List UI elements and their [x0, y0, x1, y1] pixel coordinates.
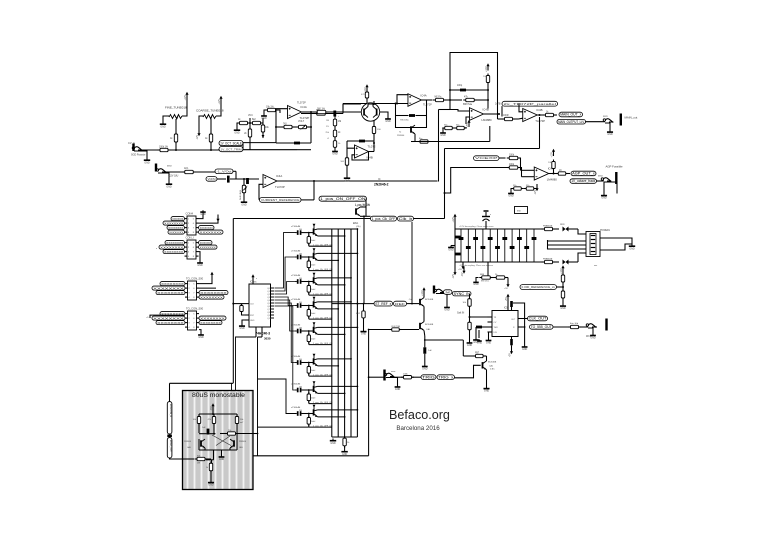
- svg-text:1uF: 1uF: [428, 350, 432, 352]
- svg-text:xxxx: xxxx: [598, 176, 603, 178]
- ground IC4B res: [344, 176, 350, 182]
- resistor mono A: [193, 414, 201, 433]
- wire power top: [578, 229, 586, 234]
- wire mid vertical 438: [439, 110, 451, 182]
- svg-text:xxxx: xxxx: [603, 116, 608, 118]
- wire agp in: [499, 157, 506, 159]
- resistor R coarse wiper: [205, 119, 213, 150]
- resistor wcp out: [568, 322, 588, 329]
- svg-text:CAL: CAL: [426, 328, 431, 331]
- wire IC4A out: [277, 180, 438, 182]
- svg-text:+12V: +12V: [486, 66, 488, 72]
- capacitor bulk top: [455, 236, 461, 239]
- svg-text:GND: GND: [200, 213, 206, 216]
- svg-text:GND: GND: [607, 133, 613, 136]
- svg-text:FERRITE: FERRITE: [543, 226, 553, 228]
- svg-text:GND: GND: [330, 442, 336, 445]
- capacitor 555 top: [508, 301, 525, 345]
- svg-text:XXXXXXXX: XXXXXXXX: [157, 321, 184, 325]
- transistor Q cal lower: [419, 322, 434, 331]
- ground of FINE pot: [160, 122, 166, 128]
- wire power bottom: [578, 253, 586, 262]
- jack CV_IN: [128, 141, 147, 158]
- svg-text:XXXXXXXX: XXXXXXXX: [160, 245, 183, 249]
- svg-text:1V_octave_track: 1V_octave_track: [571, 179, 595, 183]
- wire circle y113 bus: [301, 112, 343, 115]
- wire mono mid: [213, 428, 215, 435]
- wire cal chain: [423, 306, 426, 336]
- svg-text:Clk_b: Clk_b: [399, 217, 413, 221]
- svg-text:GND: GND: [234, 131, 240, 134]
- svg-text:GND: GND: [629, 247, 635, 250]
- -12V supply COARSE pot: [197, 129, 201, 140]
- op-amp IC4A sawcore: [408, 93, 432, 106]
- ground WCP: [590, 334, 596, 340]
- wire box2: [445, 168, 510, 194]
- resistor below IC4B: [340, 156, 348, 176]
- svg-text:1k: 1k: [238, 119, 241, 121]
- vneg sync: [462, 267, 466, 277]
- svg-text:AGP_OUT_x: AGP_OUT_x: [572, 172, 595, 176]
- capacitor C row3: [227, 176, 230, 183]
- svg-text:2k: 2k: [244, 133, 247, 135]
- svg-text:1M: 1M: [338, 121, 341, 123]
- svg-text:-1_V/Oct: -1_V/Oct: [217, 169, 232, 173]
- wire Q trig emitter: [486, 370, 488, 387]
- svg-text:xxx: xxx: [594, 265, 598, 267]
- svg-text:CLW 7SB: CLW 7SB: [391, 326, 401, 328]
- net label OCT pill 2: [219, 147, 243, 152]
- svg-text:GND: GND: [344, 179, 350, 182]
- svg-text:IC4A: IC4A: [301, 105, 307, 109]
- svg-text:TL072P: TL072P: [535, 119, 545, 123]
- ground 555 topright: [522, 345, 528, 351]
- svg-text:IC4B: IC4B: [483, 107, 489, 111]
- svg-text:Salt IN: Salt IN: [457, 312, 464, 315]
- op-amp IC4A: [263, 174, 285, 189]
- net pill sync A: [444, 290, 453, 295]
- wire bottom rail: [253, 455, 369, 457]
- svg-text:GND: GND: [467, 344, 473, 347]
- svg-text:LM4880: LM4880: [482, 118, 493, 122]
- svg-text:Q0: Q0: [267, 288, 270, 290]
- svg-text:Q10: Q10: [267, 318, 271, 320]
- svg-text:1W: 1W: [197, 463, 200, 465]
- VCC scale node: [248, 115, 253, 124]
- svg-text:XXXXXXXX: XXXXXXXX: [153, 286, 184, 290]
- svg-text:+12V decoupling. Close xxx to: +12V decoupling. Close xxx to xxxx: [459, 225, 494, 228]
- svg-text:+5V: +5V: [506, 297, 508, 302]
- net pill row3: [206, 177, 217, 182]
- resistor fuse bottom: [541, 259, 559, 264]
- svg-text:VOLT: VOLT: [298, 120, 305, 123]
- svg-text:VCEXP: VCEXP: [475, 156, 498, 160]
- wire circle right: [380, 112, 391, 123]
- svg-text:1_pos_Clk_OFF: 1_pos_Clk_OFF: [372, 217, 396, 221]
- svg-text:2N3904: 2N3904: [239, 441, 247, 443]
- wire to AGP jack: [597, 180, 605, 182]
- ground scale: [234, 123, 240, 134]
- net pill out A: [371, 216, 397, 221]
- svg-text:CLK_OUT: CLK_OUT: [529, 317, 548, 321]
- vcc ref divider: [561, 265, 565, 274]
- svg-text:+12V 18U: +12V 18U: [168, 176, 179, 178]
- capacitor C30 top: [482, 211, 491, 229]
- connector vertical separator: [167, 435, 172, 438]
- resistor trig in: [393, 374, 421, 379]
- ground expo column: [332, 150, 338, 156]
- svg-text:+5V: +5V: [504, 288, 508, 290]
- svg-text:uT304dM: uT304dM: [291, 299, 300, 301]
- svg-text:LM4880: LM4880: [547, 178, 558, 182]
- svg-text:Dahl: Dahl: [311, 313, 316, 315]
- svg-text:t1: t1: [327, 137, 330, 140]
- wire sync to IC: [469, 316, 488, 318]
- resistor below opB A: [442, 125, 455, 130]
- svg-text:Q7: Q7: [267, 309, 270, 311]
- svg-text:x: x: [490, 214, 491, 216]
- wire cell 7 res out: [309, 402, 333, 404]
- +12V supply FINE pot: [185, 92, 189, 101]
- svg-text:1_pos_Clk_OFF_Clk: 1_pos_Clk_OFF_Clk: [313, 293, 333, 295]
- svg-text:1k: 1k: [205, 137, 208, 140]
- wire ic down B: [257, 337, 259, 456]
- ground below opB: [440, 128, 446, 137]
- ground mono mid: [219, 450, 225, 461]
- wire IC clk: [232, 303, 243, 305]
- resistor reg A: [478, 274, 493, 279]
- potentiometer FINE_TUNE018: [163, 99, 187, 122]
- transistor ladder cell Q4: [291, 297, 318, 319]
- wire big left vertical: [233, 219, 444, 384]
- svg-text:To: To: [399, 132, 402, 134]
- svg-text:25k: 25k: [325, 132, 329, 134]
- wire mono trig node: [206, 450, 214, 463]
- svg-text:TRIG: TRIG: [422, 375, 435, 379]
- wire circle left: [343, 104, 361, 112]
- resistor sync v: [462, 294, 471, 317]
- wire summing: [219, 143, 311, 150]
- net pill MAIN A: [559, 112, 583, 117]
- net pill 555 out B: [530, 325, 554, 330]
- resistor 10k 1pct: [261, 118, 269, 138]
- svg-text:xxxx: xxxx: [167, 166, 172, 168]
- svg-text:BC546B: BC546B: [425, 299, 434, 301]
- svg-text:IC: IC: [378, 178, 381, 181]
- net pill 555 out A: [523, 316, 548, 321]
- vcc below opB: [464, 120, 470, 128]
- capacitor bulk bottom: [455, 253, 461, 256]
- svg-text:GND: GND: [448, 248, 454, 251]
- svg-text:+5V: +5V: [467, 123, 469, 128]
- wire cell 2 collector: [318, 253, 359, 255]
- svg-text:GND: GND: [385, 120, 391, 123]
- svg-text:1_pos_IN_ON: 1_pos_IN_ON: [355, 204, 370, 206]
- svg-text:GND: GND: [361, 333, 367, 336]
- svg-text:Dahl: Dahl: [311, 240, 316, 242]
- svg-text:GND: GND: [198, 336, 204, 339]
- wire cell 5 collector: [318, 327, 359, 329]
- net pill trig label: [437, 375, 455, 380]
- ground ladder tail: [341, 450, 347, 456]
- ground sync jack: [444, 306, 450, 312]
- svg-text:Q8: Q8: [267, 312, 270, 314]
- svg-text:+5V: +5V: [458, 269, 462, 271]
- svg-text:IC xxx: IC xxx: [250, 282, 257, 284]
- wire cell 3 emitter: [318, 284, 346, 286]
- wire row3: [217, 171, 259, 180]
- op-amp IC AGP: [521, 167, 558, 182]
- svg-text:GND: GND: [484, 390, 490, 393]
- wire ic down stubs: [256, 327, 262, 337]
- wire cell 3 res out: [309, 293, 333, 295]
- svg-text:TL072: TL072: [368, 145, 376, 149]
- wire cell 3 collector: [318, 277, 352, 279]
- svg-text:Dahl: Dahl: [311, 339, 316, 341]
- svg-text:Q6: Q6: [267, 306, 270, 308]
- ground preout: [360, 330, 366, 336]
- wire expo h141: [347, 138, 374, 148]
- svg-text:+5V: +5V: [211, 406, 213, 411]
- svg-text:Dahl: Dahl: [311, 370, 316, 372]
- svg-text:E8k1: E8k1: [353, 223, 359, 225]
- svg-text:GND: GND: [166, 185, 172, 188]
- svg-text:XXXXXXXX: XXXXXXXX: [200, 321, 221, 325]
- net pill AGP B: [570, 179, 597, 184]
- vcc monostable: [211, 403, 215, 410]
- wire reg from rail: [487, 262, 489, 276]
- resistor ladder tail: [343, 436, 350, 449]
- wire mono trig in: [183, 458, 195, 460]
- resistor 1K agp: [556, 170, 570, 175]
- svg-text:Q1: Q1: [267, 291, 270, 293]
- wire cell 1 res out: [309, 244, 333, 246]
- wire IC4B up: [373, 142, 375, 152]
- wire feedback y141: [411, 126, 490, 142]
- resistor ref top: [561, 273, 564, 285]
- svg-text:1_pos_Clk_OFF_Clk: 1_pos_Clk_OFF_Clk: [313, 374, 333, 376]
- junction cap bus: [333, 101, 375, 117]
- wires IC output fan: [275, 233, 296, 390]
- wire to main jack: [586, 121, 606, 123]
- svg-text:FB7: FB7: [475, 352, 480, 354]
- svg-text:VCC: VCC: [248, 115, 253, 117]
- wire trig to Q: [455, 365, 481, 378]
- trimmer VOLT: [296, 120, 312, 131]
- svg-text:TO_CON_500: TO_CON_500: [186, 277, 204, 281]
- vneg agp: [535, 184, 539, 195]
- svg-text:GND: GND: [473, 283, 479, 286]
- feedback box IC4A2: [275, 109, 312, 143]
- svg-text:100k 1%: 100k 1%: [159, 147, 168, 149]
- ground reg: [473, 278, 479, 287]
- ground trig jack: [395, 385, 401, 391]
- resistor fuse top: [541, 226, 559, 231]
- svg-text:GND: GND: [560, 307, 566, 310]
- wire cell 6 collector: [318, 358, 352, 360]
- svg-text:FERRITE: FERRITE: [543, 259, 553, 261]
- ground trimmer: [241, 200, 247, 206]
- label AGP Possible: [606, 165, 623, 169]
- svg-text:BC546B: BC546B: [425, 324, 434, 326]
- wire cell 5 res out: [309, 343, 333, 345]
- jack AGP: [598, 172, 618, 194]
- svg-text:XXXXXXXX: XXXXXXXX: [172, 217, 183, 221]
- svg-text:GND: GND: [208, 484, 214, 487]
- svg-text:2N2646-2: 2N2646-2: [374, 183, 389, 187]
- transistor pair circle: [361, 103, 379, 121]
- svg-text:+12V: +12V: [551, 152, 553, 158]
- capacitor cal 1uF: [423, 340, 432, 365]
- resistor discharge: [418, 138, 431, 143]
- wire mono out right: [253, 433, 258, 435]
- svg-text:uT304dM: uT304dM: [291, 275, 300, 277]
- resistor scale B: [250, 119, 263, 125]
- svg-text:(Clk): (Clk): [356, 226, 361, 228]
- wire to pill: [194, 171, 216, 173]
- IC U1 74HC4040 body: [243, 282, 274, 328]
- svg-text:IC4A: IC4A: [420, 93, 426, 97]
- label decoupling bottom: [459, 264, 494, 267]
- op-amp IC4B2: [450, 107, 492, 124]
- vcc IC4040: [251, 274, 257, 284]
- wire ic down C: [231, 383, 233, 390]
- connector POWER: [586, 230, 611, 257]
- svg-text:GND: GND: [160, 125, 166, 128]
- svg-text:2N3904: 2N3904: [184, 441, 192, 443]
- ground 555 left: [486, 332, 492, 344]
- svg-text:-12V: -12V: [453, 274, 455, 279]
- capacitor mono: [199, 427, 216, 435]
- vcc 555: [506, 294, 510, 303]
- resistor 36k on bus: [314, 110, 328, 115]
- svg-text:RRR: RRR: [560, 224, 565, 226]
- wire conn top: [169, 383, 171, 401]
- svg-text:GND: GND: [241, 203, 247, 206]
- net pill CURRENT REFERENCE: [260, 181, 315, 202]
- svg-text:470: 470: [361, 94, 365, 96]
- wire op out main: [537, 114, 544, 116]
- svg-text:1V_OCT_SCALE: 1V_OCT_SCALE: [220, 142, 242, 146]
- net pill sync B: [453, 291, 472, 296]
- svg-text:GND: GND: [440, 134, 446, 137]
- trimmer 2k49: [240, 179, 248, 200]
- ground agp low: [508, 189, 514, 198]
- label 74HC4040: [256, 332, 271, 341]
- svg-text:CLK: CLK: [250, 304, 255, 306]
- svg-text:COARSE_TUNE018: COARSE_TUNE018: [196, 109, 224, 113]
- svg-text:x: x: [256, 278, 257, 280]
- svg-text:VCFM: VCFM: [208, 177, 217, 181]
- svg-text:XXXXXXXX: XXXXXXXX: [200, 241, 211, 245]
- wire cell 2 res out: [309, 269, 333, 271]
- wire cell 7 collector: [318, 386, 359, 388]
- wire cell 2 emitter: [318, 260, 340, 262]
- svg-text:XXXXXXXX: XXXXXXXX: [161, 282, 184, 286]
- resistor 1k out: [543, 112, 557, 117]
- svg-text:Barcelona 2016: Barcelona 2016: [396, 425, 440, 432]
- net label OCT pill dark: [219, 141, 243, 146]
- wire sawcore inputs: [343, 95, 408, 105]
- svg-text:888 Hale: 888 Hale: [463, 104, 473, 106]
- ground mono pull: [208, 481, 214, 487]
- svg-text:XXXXXXXX: XXXXXXXX: [157, 291, 184, 295]
- svg-text:Q9: Q9: [267, 315, 270, 317]
- transistor Q trig: [482, 361, 497, 371]
- svg-text:GND: GND: [486, 341, 492, 344]
- svg-text:TO_CON_500: TO_CON_500: [186, 307, 204, 311]
- feedback wire IC4A: [259, 184, 263, 200]
- svg-text:+12V: +12V: [422, 290, 424, 296]
- svg-text:1_pos_Clk_OFF_Clk: 1_pos_Clk_OFF_Clk: [313, 425, 333, 427]
- wire IC4B fb: [352, 152, 374, 161]
- svg-text:+5V: +5V: [509, 353, 511, 358]
- resistor 7k5 fb: [282, 124, 297, 129]
- wire mono top rail: [199, 411, 237, 416]
- net pill REFERENCE: [520, 285, 557, 290]
- resistor IC rst: [240, 304, 245, 316]
- capacitors decoupling bank: [455, 229, 541, 262]
- wire conn bottom: [170, 458, 183, 459]
- svg-text:Dahl: Dahl: [311, 421, 316, 423]
- potentiometer COARSE_TUNE018: [196, 103, 224, 129]
- svg-text:XXXXXXXX: XXXXXXXX: [153, 316, 184, 320]
- transistor ladder cell Q8: [291, 405, 318, 427]
- svg-text:XXXXXXXX: XXXXXXXX: [168, 226, 183, 230]
- capacitor Cb row3: [246, 178, 249, 184]
- svg-text:NE Fix: NE Fix: [435, 96, 443, 98]
- svg-text:GND: GND: [601, 197, 607, 200]
- svg-text:Ext+10d: Ext+10d: [570, 322, 579, 325]
- ground main jack: [607, 130, 613, 136]
- op-amp IC4A main: [288, 102, 310, 121]
- wire cell 8 res out: [309, 425, 333, 427]
- resistor 1M pair B: [333, 126, 341, 139]
- svg-text:uT304dM: uT304dM: [291, 226, 300, 228]
- resistor reg B: [481, 274, 508, 283]
- svg-text:10k: 10k: [265, 127, 270, 129]
- ground ladder bus: [330, 439, 336, 445]
- wire cal emitter node: [424, 336, 475, 356]
- svg-text:ST_REF_x: ST_REF_x: [375, 302, 391, 306]
- jack MAIN_OUT: [603, 114, 638, 131]
- svg-text:x: x: [156, 248, 158, 250]
- wire cell 4 res out: [309, 317, 333, 319]
- transistor ladder cell Q3: [291, 273, 318, 295]
- svg-text:+12V: +12V: [453, 217, 455, 223]
- ground sync pull: [467, 341, 473, 347]
- svg-text:888 DUL: 888 DUL: [481, 281, 490, 283]
- svg-text:100k: 100k: [509, 155, 515, 157]
- resistor scale A: [237, 119, 250, 125]
- svg-text:1_pos_Clk_OFF_Clk: 1_pos_Clk_OFF_Clk: [313, 343, 333, 345]
- resistor cal low base: [368, 326, 419, 331]
- svg-text:xxxx: xxxx: [391, 371, 396, 373]
- resistor mono 73k: [220, 430, 253, 435]
- svg-text:AGP Fossible: AGP Fossible: [606, 165, 623, 169]
- svg-text:74HC40-3: 74HC40-3: [256, 332, 271, 336]
- svg-text:REF: REF: [395, 302, 405, 306]
- net pill 1_pos_ON_OFF_ON: [319, 196, 370, 207]
- svg-text:SGD Poxxxte: SGD Poxxxte: [131, 154, 146, 157]
- svg-text:1_pos_Clk_OFF_Clk: 1_pos_Clk_OFF_Clk: [313, 317, 333, 319]
- svg-text:GND: GND: [197, 264, 203, 267]
- svg-text:2x7B: 2x7B: [495, 103, 501, 106]
- svg-text:0.000_REFERENCE_xx: 0.000_REFERENCE_xx: [522, 285, 556, 289]
- ground ref divider: [560, 298, 566, 310]
- wire feedback y148: [445, 114, 541, 149]
- resistor preout: [356, 303, 365, 330]
